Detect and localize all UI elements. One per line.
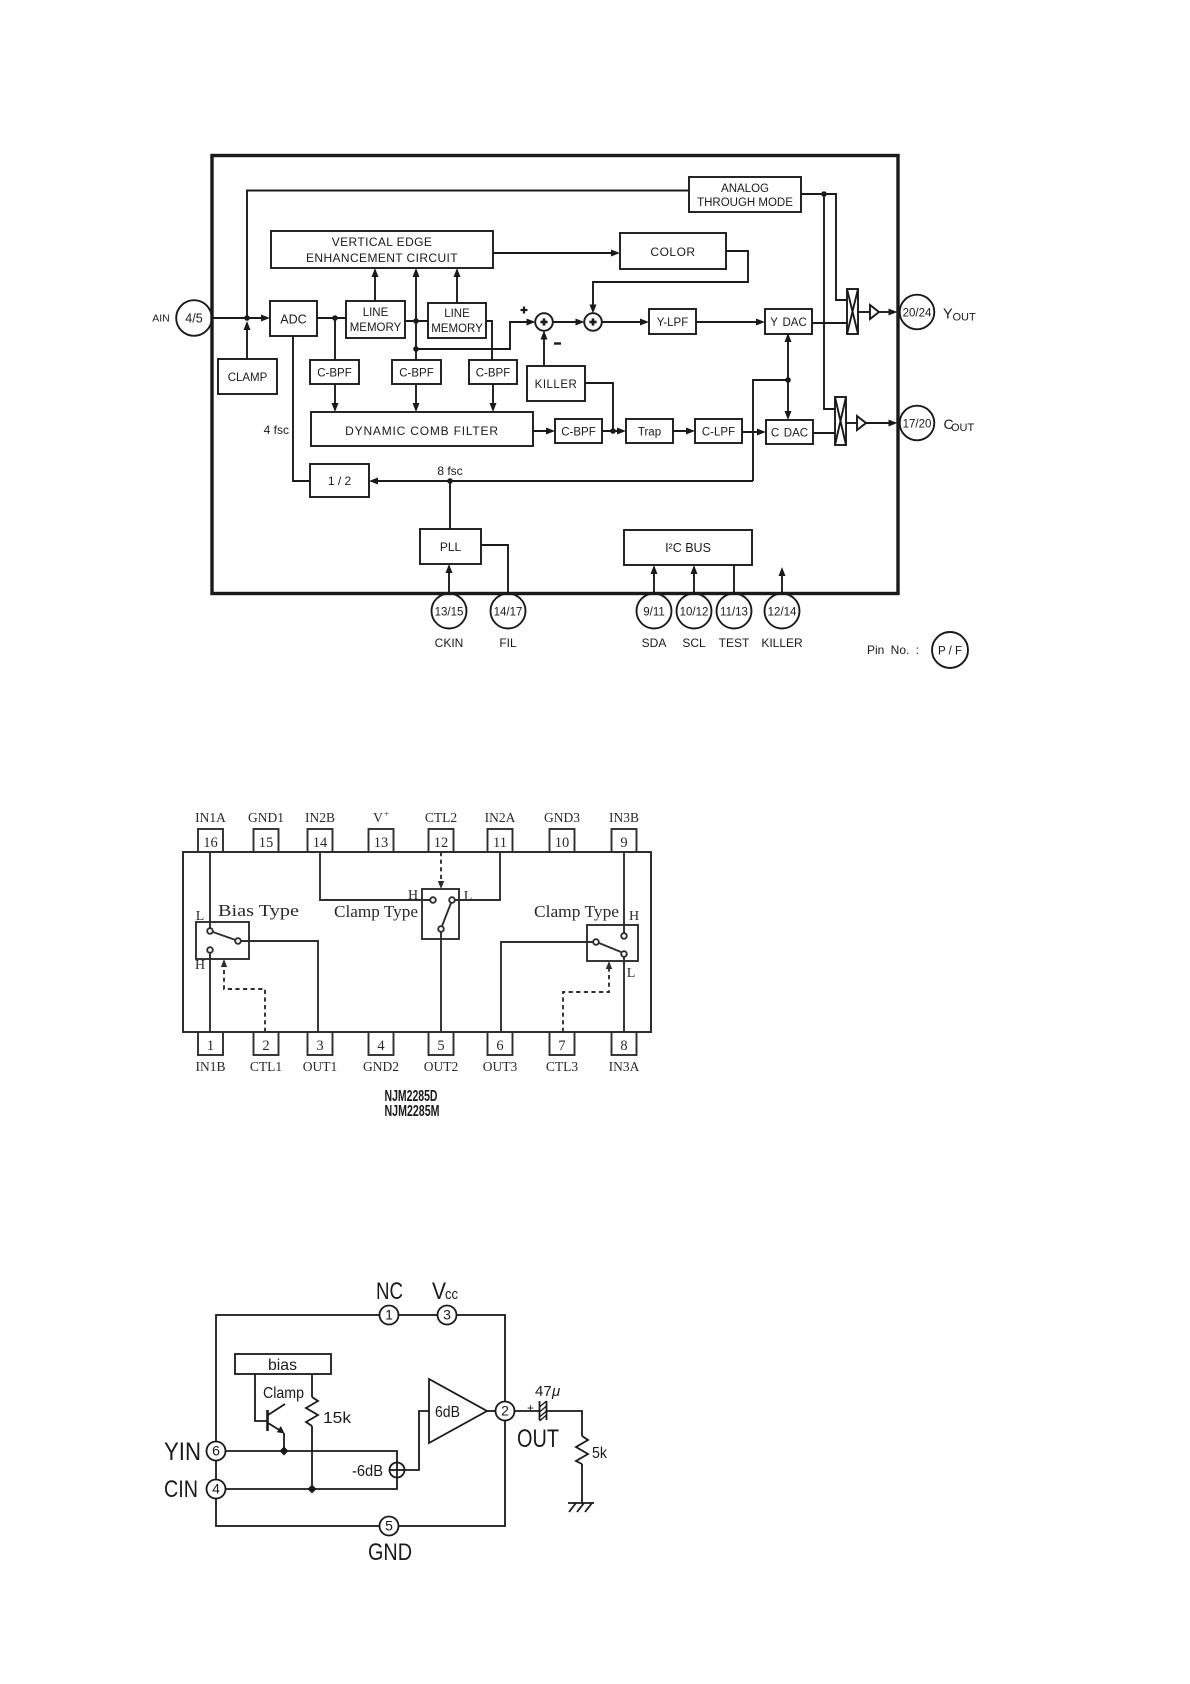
svg-text:bias: bias bbox=[268, 1357, 297, 1374]
minus sign bbox=[554, 342, 561, 344]
wire analog-through to mixer 2 bbox=[824, 194, 835, 409]
wire ADC to LINE MEMORY 1 bbox=[317, 315, 346, 321]
wire adder to amp bbox=[405, 1411, 430, 1470]
svg-text:20/24: 20/24 bbox=[903, 308, 932, 320]
svg-text:IN2A: IN2A bbox=[485, 810, 516, 825]
dashed control CTL2 bbox=[440, 852, 442, 885]
svg-text:Y DAC: Y DAC bbox=[770, 317, 807, 329]
wire C-BPF4 to Trap bbox=[602, 428, 626, 435]
C-BPF 1 bbox=[310, 360, 359, 384]
adder 1 bbox=[535, 313, 553, 331]
svg-text:3: 3 bbox=[443, 1307, 451, 1323]
svg-text:Y: Y bbox=[943, 307, 953, 323]
wire CIN bbox=[226, 1478, 398, 1494]
svg-text:+: + bbox=[527, 1401, 534, 1415]
svg-text:KILLER: KILLER bbox=[535, 379, 578, 391]
pin SCL 10/12 bbox=[677, 594, 712, 651]
svg-text:H: H bbox=[629, 909, 639, 924]
svg-text:CLAMP: CLAMP bbox=[228, 372, 268, 384]
svg-text:6: 6 bbox=[212, 1443, 220, 1459]
svg-text:4 fsc: 4 fsc bbox=[264, 423, 289, 437]
svg-text:12/14: 12/14 bbox=[768, 607, 797, 619]
wire amp to pin2 bbox=[487, 1410, 496, 1412]
svg-text:4: 4 bbox=[212, 1481, 220, 1497]
svg-text:OUT3: OUT3 bbox=[483, 1059, 518, 1074]
svg-text:L: L bbox=[627, 966, 636, 981]
pin YOUT 20/24 bbox=[900, 295, 976, 330]
switch 1 bias type box bbox=[195, 901, 299, 973]
svg-text:GND2: GND2 bbox=[363, 1059, 399, 1074]
svg-text:GND1: GND1 bbox=[248, 810, 284, 825]
wire C-LPF to C DAC bbox=[742, 429, 766, 436]
clamp transistor Q1 bbox=[255, 1374, 285, 1451]
wire C-BPF2 to comb filter bbox=[413, 384, 420, 412]
amplifier 6dB bbox=[429, 1379, 487, 1443]
pin AIN 4/5 bbox=[152, 300, 212, 336]
svg-text:C-BPF: C-BPF bbox=[561, 427, 596, 439]
svg-text:4/5: 4/5 bbox=[185, 312, 202, 326]
svg-text:LINE: LINE bbox=[444, 308, 470, 320]
svg-text:C-BPF: C-BPF bbox=[399, 368, 434, 380]
dashed control CTL3 bbox=[563, 965, 609, 1032]
pin 10 GND3 bbox=[544, 810, 580, 852]
switch 3 clamp type box bbox=[534, 902, 639, 981]
wire tap to adder 1 bbox=[416, 307, 536, 350]
wire C-BPF3 to comb filter bbox=[490, 384, 497, 412]
svg-text:12: 12 bbox=[434, 835, 449, 851]
wire analog-through to mixer 1 bbox=[801, 191, 847, 300]
block COLOR bbox=[620, 233, 726, 269]
svg-text:Y-LPF: Y-LPF bbox=[657, 317, 689, 329]
svg-text:P / F: P / F bbox=[938, 646, 962, 658]
C-BPF 3 bbox=[469, 360, 517, 384]
adder 2 bbox=[584, 313, 602, 331]
svg-text:CKIN: CKIN bbox=[435, 636, 464, 650]
pin SDA 9/11 bbox=[637, 594, 672, 651]
svg-text:9: 9 bbox=[620, 835, 627, 851]
buffer 1 bbox=[858, 305, 898, 319]
block KILLER bbox=[527, 366, 585, 401]
wire pin9 to switch3 bbox=[623, 852, 625, 933]
svg-text:8: 8 bbox=[620, 1038, 627, 1054]
wire adder1 to adder2 bbox=[553, 319, 585, 326]
pin 9 IN3B bbox=[609, 810, 639, 852]
block PLL bbox=[420, 529, 481, 564]
pin COUT 17/20 bbox=[900, 406, 975, 441]
resistor 5k bbox=[576, 1436, 608, 1503]
pin 12 CTL2 bbox=[425, 810, 457, 852]
block C-LPF bbox=[695, 419, 742, 443]
block ADC bbox=[270, 301, 317, 336]
wire pin8 to switch3 bbox=[623, 957, 625, 1032]
wire Y DAC to mixer 1 bbox=[812, 322, 847, 324]
wire SDA to I2C bbox=[651, 565, 658, 593]
svg-text:C-BPF: C-BPF bbox=[317, 368, 352, 380]
wire 8fsc bus bbox=[369, 464, 753, 485]
svg-text:NJM2285M: NJM2285M bbox=[385, 1103, 440, 1120]
svg-text:H: H bbox=[195, 958, 205, 973]
svg-text:Clamp Type: Clamp Type bbox=[534, 902, 619, 921]
svg-text:DYNAMIC COMB FILTER: DYNAMIC COMB FILTER bbox=[345, 424, 499, 438]
svg-text:9/11: 9/11 bbox=[643, 607, 665, 619]
legend Pin No P/F bbox=[867, 632, 968, 668]
buffer 2 bbox=[846, 416, 898, 430]
svg-text:FIL: FIL bbox=[499, 636, 517, 650]
svg-text:IN1A: IN1A bbox=[195, 810, 226, 825]
svg-text:KILLER: KILLER bbox=[761, 636, 803, 650]
svg-text:IN3B: IN3B bbox=[609, 810, 639, 825]
svg-text:TEST: TEST bbox=[719, 636, 750, 650]
IC body bbox=[183, 852, 651, 1032]
svg-text:2: 2 bbox=[501, 1403, 509, 1419]
svg-text:SDA: SDA bbox=[642, 636, 667, 650]
wire comb filter to C-BPF 4 bbox=[533, 428, 555, 435]
pin 13 V+ bbox=[369, 809, 394, 852]
svg-text:V: V bbox=[373, 810, 383, 825]
svg-text:11: 11 bbox=[493, 835, 507, 851]
block DYNAMIC COMB FILTER bbox=[311, 412, 533, 446]
wire LINE MEMORY 1 to enhancement circuit bbox=[372, 268, 379, 301]
svg-text:13/15: 13/15 bbox=[435, 607, 464, 619]
block LINE MEMORY 2 bbox=[428, 303, 486, 338]
pin TEST 11/13 bbox=[717, 594, 752, 651]
block Y DAC bbox=[765, 309, 812, 334]
pin 15 GND1 bbox=[248, 810, 284, 852]
svg-text:6dB: 6dB bbox=[435, 1404, 460, 1421]
svg-text:OUT1: OUT1 bbox=[303, 1059, 338, 1074]
wire LINE MEMORY 2 to C-BPF 3 bbox=[486, 321, 492, 360]
wire 8fsc to DAC clock bbox=[753, 380, 788, 481]
wire KILLER to adder1 bbox=[541, 331, 548, 367]
block VERTICAL EDGE ENHANCEMENT CIRCUIT bbox=[271, 231, 493, 268]
svg-text:-6dB: -6dB bbox=[352, 1463, 383, 1480]
wire LINE MEMORY 1 to LINE MEMORY 2 bbox=[405, 318, 428, 324]
switch 1 contacts bbox=[207, 928, 241, 953]
wire Trap to C-LPF bbox=[673, 428, 695, 435]
svg-text:C-LPF: C-LPF bbox=[702, 427, 735, 439]
block I2C BUS bbox=[624, 530, 752, 565]
svg-text:Bias Type: Bias Type bbox=[218, 901, 299, 920]
wire adder2 to Y-LPF bbox=[602, 319, 650, 326]
resistor 15k bbox=[306, 1374, 352, 1489]
wire C-BPF1 to comb filter bbox=[332, 384, 339, 412]
wire C DAC to mixer 2 bbox=[813, 432, 835, 434]
svg-text:8 fsc: 8 fsc bbox=[437, 464, 462, 478]
svg-text:14/17: 14/17 bbox=[494, 607, 523, 619]
switch 2 clamp type box bbox=[334, 888, 472, 939]
wire pin14 to switch2 bbox=[320, 852, 430, 900]
wire CKIN to PLL bbox=[446, 564, 453, 593]
wire pin11 to switch2 bbox=[455, 852, 500, 900]
svg-text:Trap: Trap bbox=[638, 427, 661, 439]
svg-text:C-BPF: C-BPF bbox=[476, 368, 511, 380]
svg-text:ANALOG: ANALOG bbox=[721, 183, 769, 195]
clamp CLAMP bbox=[218, 359, 277, 394]
wire cap to load bbox=[547, 1411, 583, 1436]
svg-text:V: V bbox=[432, 1278, 446, 1305]
svg-text:Clamp: Clamp bbox=[263, 1385, 304, 1402]
svg-text:1: 1 bbox=[385, 1307, 393, 1323]
pin 7 CTL3 bbox=[546, 1032, 578, 1074]
pin KILLER 12/14 bbox=[761, 594, 803, 651]
svg-text:MEMORY: MEMORY bbox=[431, 323, 483, 335]
svg-text:COLOR: COLOR bbox=[650, 245, 695, 259]
wire PLL to 8fsc bbox=[449, 481, 451, 529]
svg-text:MEMORY: MEMORY bbox=[350, 322, 402, 334]
svg-text:17/20: 17/20 bbox=[903, 419, 932, 431]
svg-text:47: 47 bbox=[535, 1383, 552, 1400]
wire YIN bbox=[226, 1447, 398, 1463]
wire TEST to I2C bbox=[733, 565, 735, 593]
block LINE MEMORY 1 bbox=[346, 301, 405, 338]
svg-text:VERTICAL EDGE: VERTICAL EDGE bbox=[332, 235, 433, 249]
svg-text:IN3A: IN3A bbox=[609, 1059, 640, 1074]
svg-text:15k: 15k bbox=[323, 1410, 352, 1427]
svg-text:10: 10 bbox=[555, 835, 570, 851]
C-BPF 4 bbox=[555, 419, 602, 443]
svg-text:1: 1 bbox=[207, 1038, 214, 1054]
svg-text:GND: GND bbox=[368, 1539, 412, 1566]
wire Y-LPF to Y DAC bbox=[696, 319, 765, 326]
wire pin1 to switch1 bbox=[209, 953, 211, 1032]
wire DAC clock vertical bbox=[785, 333, 792, 420]
pin FIL 14/17 bbox=[491, 594, 526, 651]
pin 3 Vcc bbox=[432, 1278, 458, 1325]
svg-text:5: 5 bbox=[437, 1038, 444, 1054]
wire AIN to ADC bbox=[211, 315, 271, 322]
pin 4 GND2 bbox=[363, 1032, 399, 1074]
svg-text:SCL: SCL bbox=[682, 636, 706, 650]
svg-text:4: 4 bbox=[377, 1038, 385, 1054]
svg-text:CTL3: CTL3 bbox=[546, 1059, 578, 1074]
svg-text:cc: cc bbox=[445, 1286, 458, 1303]
svg-text:YIN: YIN bbox=[164, 1438, 201, 1466]
pin 5 GND bbox=[368, 1517, 412, 1567]
svg-text:CIN: CIN bbox=[164, 1476, 198, 1503]
svg-text:13: 13 bbox=[374, 835, 389, 851]
wire switch1 to OUT1 bbox=[241, 941, 318, 1032]
bias block bbox=[235, 1354, 331, 1374]
wire COLOR to adder 2 bbox=[590, 251, 749, 314]
svg-text:15: 15 bbox=[259, 835, 274, 851]
svg-text:I²C BUS: I²C BUS bbox=[665, 541, 711, 555]
block ANALOG THROUGH MODE bbox=[689, 177, 801, 212]
svg-text:5: 5 bbox=[385, 1518, 393, 1534]
svg-text:1 / 2: 1 / 2 bbox=[328, 474, 352, 488]
svg-text:IN1B: IN1B bbox=[196, 1059, 226, 1074]
svg-text:PLL: PLL bbox=[440, 540, 462, 554]
svg-text:5k: 5k bbox=[592, 1445, 608, 1462]
pin 6 OUT3 bbox=[483, 1032, 518, 1074]
svg-text:μ: μ bbox=[551, 1383, 560, 1400]
pin 4 CIN bbox=[164, 1476, 226, 1503]
wire FIL to PLL bbox=[481, 545, 508, 593]
pin CKIN 13/15 bbox=[432, 594, 467, 651]
wire center tap vertical bbox=[413, 268, 420, 360]
svg-text:L: L bbox=[196, 909, 205, 924]
svg-text:11/13: 11/13 bbox=[720, 607, 748, 619]
wire ADC node to C-BPF 1 bbox=[334, 318, 336, 360]
capacitor 47u bbox=[515, 1383, 561, 1421]
pin 14 IN2B bbox=[305, 810, 335, 852]
svg-text:AIN: AIN bbox=[152, 313, 170, 325]
wire ADC to divider 4fsc bbox=[264, 336, 310, 481]
wire KILLER to chroma path bbox=[585, 383, 616, 434]
svg-text:Pin No. :: Pin No. : bbox=[867, 643, 919, 657]
pin 2 CTL1 bbox=[250, 1032, 282, 1074]
svg-text:14: 14 bbox=[313, 835, 328, 851]
pin 6 YIN bbox=[164, 1438, 226, 1466]
wire enhancement to COLOR bbox=[493, 250, 620, 257]
pin 2 OUT bbox=[496, 1402, 560, 1454]
svg-text:16: 16 bbox=[203, 835, 218, 851]
wire CLAMP to input node bbox=[244, 321, 251, 359]
wire switch2 to OUT2 bbox=[440, 932, 442, 1032]
svg-text:GND3: GND3 bbox=[544, 810, 580, 825]
pin 11 IN2A bbox=[485, 810, 516, 852]
svg-text:Clamp Type: Clamp Type bbox=[334, 902, 418, 921]
wire node to analog-through-mode bbox=[247, 191, 689, 319]
pin 8 IN3A bbox=[609, 1032, 640, 1074]
svg-text:OUT: OUT bbox=[951, 422, 975, 434]
mixer 1 bbox=[847, 289, 858, 334]
attenuator -6dB adder bbox=[352, 1463, 405, 1481]
svg-text:OUT2: OUT2 bbox=[424, 1059, 459, 1074]
mixer 2 bbox=[835, 397, 846, 445]
pin 1 IN1B bbox=[196, 1032, 226, 1074]
C-BPF 2 bbox=[392, 360, 441, 384]
block Y-LPF bbox=[649, 309, 696, 334]
svg-text:2: 2 bbox=[262, 1038, 269, 1054]
pin 3 OUT1 bbox=[303, 1032, 338, 1074]
svg-text:6: 6 bbox=[496, 1038, 503, 1054]
block Trap bbox=[626, 419, 673, 443]
svg-text:+: + bbox=[384, 809, 389, 819]
svg-text:NC: NC bbox=[376, 1278, 403, 1305]
application circuit frame bbox=[216, 1315, 505, 1526]
block diagram outer border bbox=[212, 156, 898, 594]
ground bbox=[568, 1503, 594, 1512]
svg-text:LINE: LINE bbox=[363, 307, 389, 319]
dashed control CTL1 bbox=[224, 963, 265, 1032]
block C DAC bbox=[766, 420, 813, 444]
svg-text:7: 7 bbox=[558, 1038, 565, 1054]
svg-text:CTL2: CTL2 bbox=[425, 810, 457, 825]
svg-text:3: 3 bbox=[316, 1038, 323, 1054]
svg-text:THROUGH MODE: THROUGH MODE bbox=[697, 197, 793, 209]
svg-text:C DAC: C DAC bbox=[771, 428, 808, 440]
svg-text:CTL1: CTL1 bbox=[250, 1059, 282, 1074]
svg-text:10/12: 10/12 bbox=[680, 607, 709, 619]
block divider 1/2 bbox=[310, 464, 369, 497]
svg-text:OUT: OUT bbox=[517, 1425, 559, 1453]
switch 2 contacts bbox=[430, 897, 455, 932]
svg-text:L: L bbox=[464, 889, 473, 904]
pin 16 IN1A bbox=[195, 810, 226, 852]
wire KILLER pin bbox=[779, 567, 786, 593]
switch 3 contacts bbox=[593, 933, 627, 957]
wire SCL to I2C bbox=[691, 565, 698, 593]
svg-text:OUT: OUT bbox=[953, 312, 977, 324]
pin 1 NC bbox=[376, 1278, 403, 1325]
svg-text:ADC: ADC bbox=[280, 313, 306, 327]
wire pin16 to switch1 bbox=[209, 852, 211, 928]
pin 5 OUT2 bbox=[424, 1032, 459, 1074]
wire switch3 to OUT3 bbox=[501, 942, 593, 1032]
wire LINE MEMORY 2 to enhancement circuit bbox=[454, 268, 461, 303]
svg-text:IN2B: IN2B bbox=[305, 810, 335, 825]
svg-text:ENHANCEMENT CIRCUIT: ENHANCEMENT CIRCUIT bbox=[306, 251, 458, 265]
